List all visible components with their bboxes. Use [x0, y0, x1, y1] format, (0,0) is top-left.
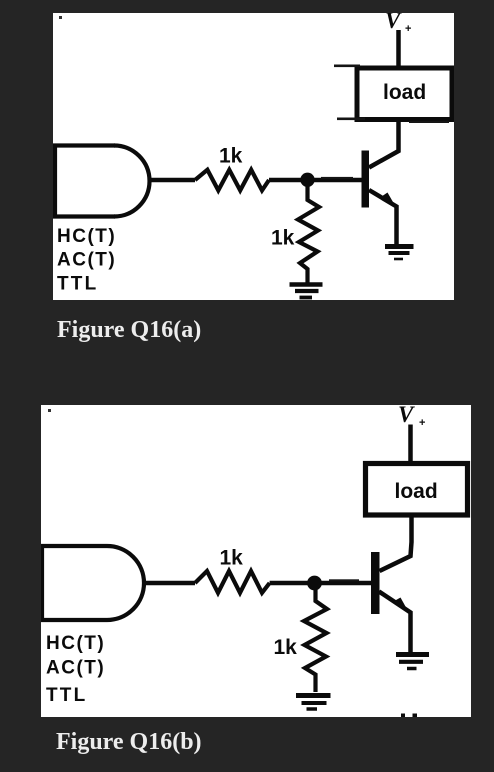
svg-text:1k: 1k — [219, 145, 243, 168]
svg-text:V: V — [385, 13, 402, 33]
svg-text:HC(T): HC(T) — [46, 633, 105, 654]
svg-text:+: + — [405, 23, 411, 35]
svg-text:+: + — [419, 417, 425, 429]
svg-text:V: V — [398, 405, 415, 427]
svg-text:load: load — [395, 480, 438, 503]
svg-text:load: load — [383, 81, 426, 104]
svg-text:1k: 1k — [274, 636, 298, 659]
svg-text:TTL: TTL — [57, 274, 98, 295]
svg-text:HC(T): HC(T) — [57, 226, 116, 247]
svg-text:TTL: TTL — [46, 685, 87, 706]
svg-text:1k: 1k — [220, 547, 244, 570]
svg-text:1k: 1k — [271, 227, 295, 250]
svg-text:AC(T): AC(T) — [57, 250, 116, 271]
svg-text:AC(T): AC(T) — [46, 658, 105, 679]
